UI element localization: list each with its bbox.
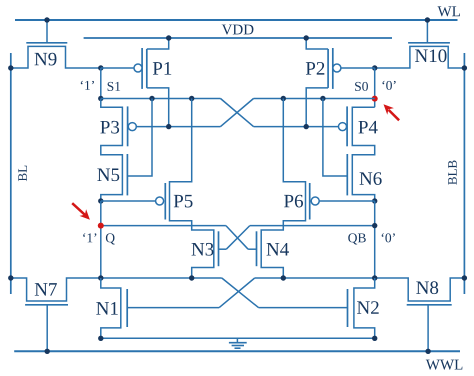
net label BL [18,166,27,181]
wire S1 row (row1 left) [101,98,221,100]
junction dot BLB/N10 drain [462,65,467,70]
wire N1 gate lead [127,307,219,309]
node label Q [106,233,115,244]
junction dot N9 drain / P1 gate / S1 [98,65,103,70]
transistor P2 channel plate [327,49,329,88]
junction dot BL/N7 [8,275,13,280]
junction dot VDD/P2 source [304,35,309,40]
node label '1' at Q [83,233,96,242]
transistor N8 gate bar [407,304,452,306]
transistor P5 gate bubble [156,197,164,205]
wire lower cross diagonal Qside-to-N2gate [222,278,259,308]
transistor P1 channel plate [146,49,148,88]
wire row2 right (P4 gate row) [254,126,339,128]
junction dot N6 source / P6 gate / QB column [372,198,377,203]
wire P2 gate lead [341,67,375,69]
junction dot row1/P5 drain line [189,96,194,101]
label P5 [174,195,193,208]
junction dot row1/P6 drain line [281,96,286,101]
transistor P5 drain line from S1 row, channel loop, source to Q row, N3 drain, channel loop, source to lower row [170,99,214,279]
wire N10 gate to WL [426,20,428,43]
wire middle cross diagonal Q-to-N4gate [226,226,248,250]
transistor P4 source stub, channel, drain stub and N6 drain stub, channel, source stub [352,107,374,201]
junction dot N5 source / P5 gate / Q column [98,198,103,203]
transistor P3 gate bubble [128,123,136,131]
label N2 [357,301,379,314]
wire row1 right (S0 side) [254,98,375,100]
transistor P6 drain line from S0 row, channel loop, source to QB row, N4 drain, channel loop, source to lower row [261,99,305,279]
node dot S0 (red) [372,96,378,102]
node label '0' at S0 [382,81,395,90]
transistor N2 gate bar [347,289,349,327]
transistor N7 leads and channel with row to lower cross [11,278,222,301]
label N1 [96,302,118,315]
transistor N1 gate bar [126,289,128,327]
label N4 [267,243,289,256]
transistor N10 channel and source/drain leads [375,46,465,68]
junction dot WL/N9 gate [44,17,49,22]
wire VDD power rail [84,37,392,39]
junction dot row2/P1 drain [166,124,171,129]
wire N6 gate lead [323,99,347,177]
net label VDD [222,25,254,35]
node label S0 [355,82,368,91]
transistor N5 gate bar [126,154,128,195]
transistor N7 gate bar [25,304,68,306]
wire Q row [101,225,226,227]
node label QB [348,233,366,244]
junction dot lower row / N4 source [281,275,286,280]
junction dot N10 source / P2 gate / S0 [372,65,377,70]
wire S1 node drop [100,68,102,99]
annotation arrow pointing at S0 node [384,104,400,120]
label N3 [192,243,214,256]
transistor N1 drain stub, channel, source stub [101,278,121,338]
wire N4 gate lead [248,248,256,250]
wire QB row [250,225,375,227]
label N9 [35,53,57,66]
wire middle cross diagonal QB-to-N3gate [226,226,250,250]
wire WWL rail [14,350,460,352]
junction dot BLB/N8 [462,275,467,280]
junction dot lower row / N3 source [189,275,194,280]
transistor P2 gate bubble [333,64,341,72]
wire upper cross diagonal P3gate-to-S0 [221,99,254,127]
label N5 [97,169,119,182]
wire row2 left (P3 gate row) [136,126,220,128]
junction dot S1 row [98,96,103,101]
wire P1 gate lead [101,67,134,69]
transistor N9 gate bar [26,42,67,44]
label N6 [360,172,382,185]
transistor P1 gate bar [141,48,143,89]
junction dot N8/QB column [372,275,377,280]
junction dot WL/N10 gate [425,17,430,22]
transistor P6 gate bubble [311,197,319,205]
wire P5 gate lead from Q column [101,200,156,202]
junction dot row2/P2 drain [304,124,309,129]
wire N9 gate to WL [46,20,48,43]
node label S1 [108,82,121,91]
label P1 [153,62,171,75]
node label '0' at QB [382,233,395,242]
transistor N2 drain stub, channel, source stub [354,278,375,338]
label P6 [284,195,303,208]
transistor N4 gate bar [256,231,258,266]
junction dot VDD/P1 source [166,35,171,40]
wire P6 gate lead from QB column [319,200,375,202]
wire lower cross diagonal QBside-to-N1gate [219,278,255,308]
transistor P1 drain stub to cross-couple row [147,88,169,127]
junction dot QB node [372,223,377,228]
junction dot row1/N5 gate line [149,96,154,101]
label P3 [100,121,119,134]
transistor P5 gate bar [164,183,166,220]
wire QB column segment [374,201,376,278]
transistor P6 gate bar [309,183,311,220]
label P4 [358,121,377,134]
wire N7 gate to WWL [46,305,48,352]
transistor P4 gate bubble [339,123,347,131]
transistor P3 gate bar [127,106,129,146]
transistor N6 gate bar [346,154,348,195]
wire N1/N2 source row [101,337,375,339]
junction dot N7/Q column [98,275,103,280]
transistor P2 gate bar [332,48,334,89]
junction dot WWL/N8 gate [425,349,430,354]
transistor P3 source stub, channel, drain stub and N5 drain stub, channel, source stub [101,99,123,202]
wire N3 gate lead [219,248,227,250]
junction dot N2 source corner [372,336,377,341]
transistor N9 channel and source/drain leads [11,46,101,68]
label N7 [35,283,57,295]
junction dot N1 source corner [98,336,103,341]
net label WL [438,6,460,16]
wire Q column segment [100,201,102,278]
annotation arrow pointing at Q node [72,203,90,220]
transistor P2 source stub from VDD [306,38,328,49]
wire WL word-line rail [15,19,458,21]
ground symbol bar 1 [229,342,247,344]
label N8 [416,281,438,294]
wire BLB bit-line-bar [463,53,465,294]
wire upper cross diagonal S1-to-P4gate [221,99,254,127]
net label WWL [426,360,463,370]
wire N5 gate lead [127,99,152,177]
label P2 [306,62,324,75]
ground symbol stub [236,338,238,342]
wire BL bit-line [10,53,12,294]
junction dot BL/N9 source [8,65,13,70]
node dot Q (red) [98,223,104,229]
transistor N10 gate bar [408,42,450,44]
node label '1' at S1 [81,81,94,90]
junction dot WWL/N7 gate [45,349,50,354]
junction dot row1/N6 gate line [320,96,325,101]
wire N8 gate to WWL [427,305,429,352]
ground symbol bar 2 [232,345,244,347]
wire N2 gate lead [259,307,348,309]
ground symbol bar 3 [235,347,241,349]
transistor N3 gate bar [218,231,220,266]
net label BLB [448,160,457,184]
transistor P1 gate bubble [134,64,142,72]
wire S0 node drop [374,68,376,107]
transistor N8 leads and channel with row to lower cross [255,278,465,301]
transistor P1 source stub from VDD [147,38,169,49]
transistor P2 drain stub to cross-couple row [306,88,328,127]
transistor P4 gate bar [346,106,348,146]
label N10 [415,49,446,62]
